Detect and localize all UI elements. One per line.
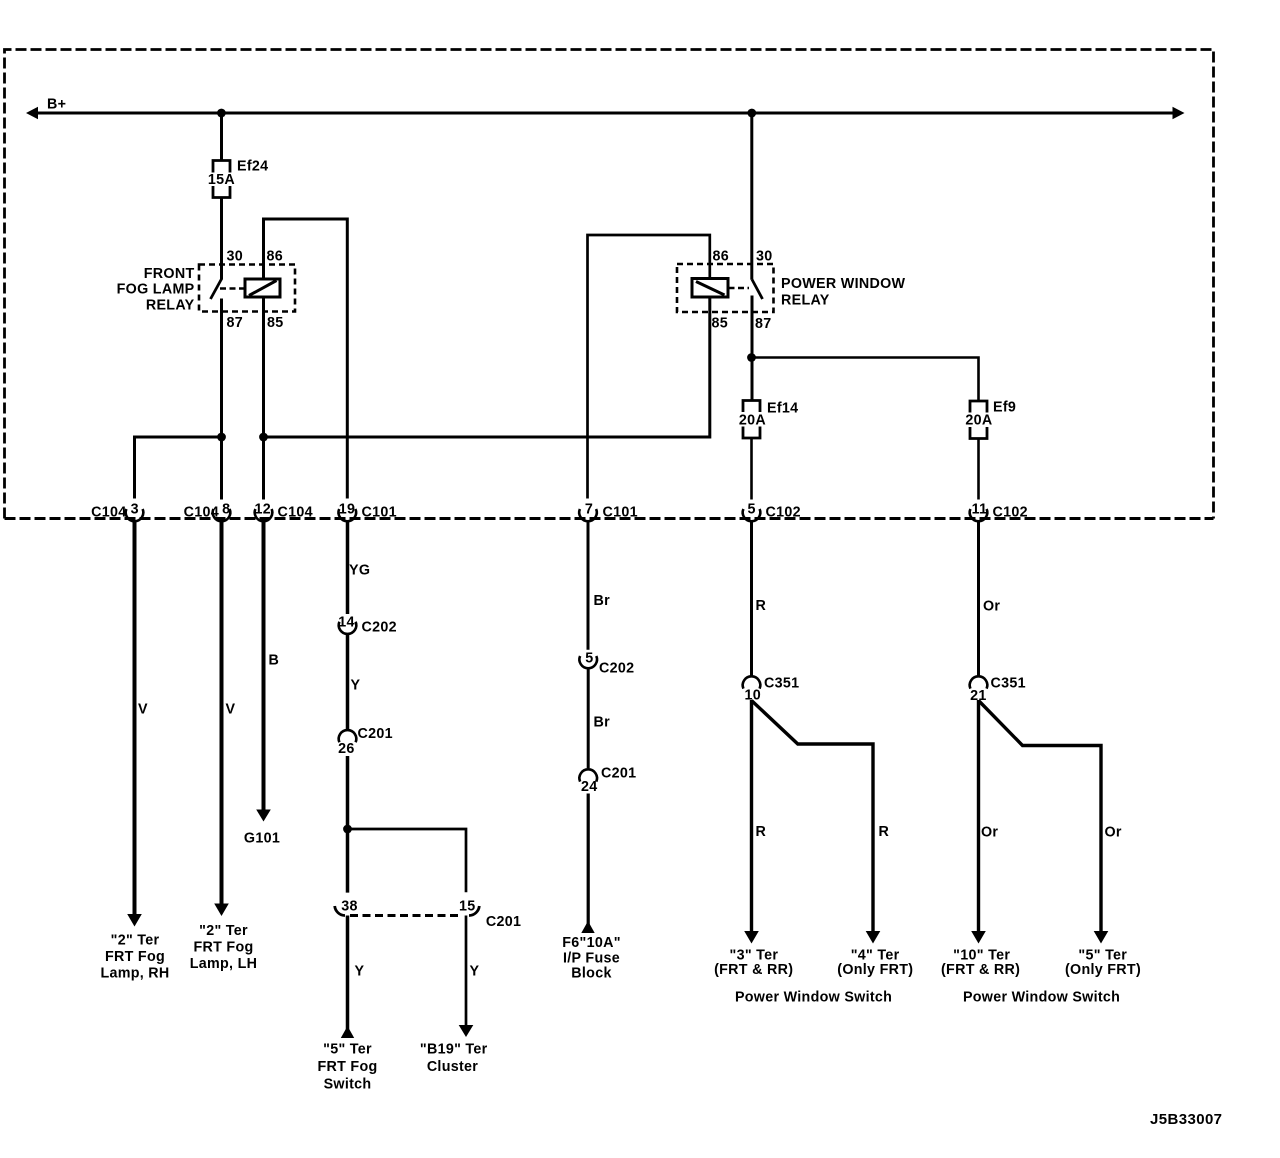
arrow to FRT fog lamp LH [214, 904, 229, 917]
wire relay FRONT FOG LAMP pin 86 up and over to connector C101-19 [264, 219, 348, 499]
arrow down PWS ter 4 [866, 931, 881, 944]
svg-text:(FRT & RR): (FRT & RR) [941, 962, 1020, 978]
connector C104-8 arc [213, 509, 231, 521]
wire from C201-24 to I/P fuse block [587, 794, 590, 934]
svg-text:C201: C201 [486, 914, 521, 930]
svg-text:C101: C101 [603, 505, 638, 521]
junction dot fog switch branch [343, 825, 352, 834]
relay POWER WINDOW coil diagonal [696, 282, 725, 296]
svg-text:5: 5 [747, 502, 755, 518]
wire Y to cluster B19 [465, 916, 468, 1026]
wire relay POWER WINDOW pin 86 up and over to connector C101-7 [588, 235, 710, 499]
arrow down PWS ter 5 [1094, 931, 1109, 944]
svg-text:(Only FRT): (Only FRT) [1065, 962, 1141, 978]
junction dot net A [217, 433, 226, 442]
svg-text:C202: C202 [362, 620, 397, 636]
svg-text:Lamp, RH: Lamp, RH [100, 966, 169, 982]
svg-text:Y: Y [355, 964, 365, 980]
svg-text:85: 85 [267, 315, 284, 331]
svg-text:11: 11 [972, 502, 988, 518]
svg-text:YG: YG [349, 563, 370, 579]
connector C351-10 arc [743, 676, 761, 688]
arrow to FRT fog lamp RH [127, 914, 142, 927]
svg-text:85: 85 [712, 316, 729, 332]
svg-text:20A: 20A [965, 413, 992, 429]
wire YG from C101-19 to C202-14 [346, 521, 350, 615]
relay FRONT FOG LAMP coil dashed link [220, 287, 245, 290]
fuse Ef14 [743, 401, 760, 439]
svg-text:8: 8 [222, 502, 230, 518]
svg-text:Ef9: Ef9 [993, 400, 1016, 416]
relay FRONT FOG LAMP dashed outline [199, 265, 295, 312]
junction dot net B [259, 433, 268, 442]
svg-text:RELAY: RELAY [146, 298, 195, 314]
wire Br from C101-7 to C202-5 [587, 521, 590, 650]
svg-text:Power Window Switch: Power Window Switch [735, 990, 892, 1006]
junction dot B+/Ef24 [217, 109, 226, 118]
arrow ground G101 [256, 810, 271, 822]
svg-text:7: 7 [585, 502, 593, 518]
svg-text:R: R [756, 598, 767, 614]
svg-text:Ef14: Ef14 [767, 401, 798, 417]
wire Or branch to power window switch ter 5 [979, 701, 1102, 932]
svg-text:F6"10A": F6"10A" [562, 935, 621, 951]
svg-text:R: R [756, 824, 767, 840]
svg-text:Lamp, LH: Lamp, LH [190, 956, 258, 972]
svg-text:C351: C351 [991, 676, 1026, 692]
wire V to FRT fog lamp RH [133, 521, 137, 915]
svg-text:(Only FRT): (Only FRT) [837, 962, 913, 978]
svg-text:"5" Ter: "5" Ter [323, 1042, 372, 1058]
wire from C201-26 to junction [346, 756, 350, 893]
svg-text:(FRT & RR): (FRT & RR) [714, 962, 793, 978]
svg-text:Cluster: Cluster [427, 1059, 478, 1075]
wire net B: relay coil ground bus [264, 297, 710, 437]
connector C351-21 arc [970, 676, 988, 688]
relay FRONT FOG LAMP switch blade [211, 279, 222, 299]
wire R from C102-5 to C351-10 [750, 521, 753, 677]
wire relay FRONT FOG LAMP pin 87 down to connector C104-8 [220, 299, 223, 500]
relay FRONT FOG LAMP coil diagonal [249, 281, 277, 296]
svg-text:20A: 20A [739, 413, 766, 429]
wire relay FRONT FOG LAMP pin 85 down to connector C104-12 [262, 297, 265, 500]
relay POWER WINDOW switch blade [752, 280, 763, 300]
svg-text:C201: C201 [358, 726, 393, 742]
svg-text:24: 24 [581, 779, 598, 795]
svg-text:POWER WINDOW: POWER WINDOW [781, 276, 906, 292]
svg-text:Power Window Switch: Power Window Switch [963, 990, 1120, 1006]
svg-text:RELAY: RELAY [781, 293, 830, 309]
svg-text:Br: Br [594, 593, 611, 609]
wire B+ to relay POWER WINDOW pin 30 [750, 113, 753, 280]
svg-text:Switch: Switch [324, 1077, 372, 1093]
svg-text:"2" Ter: "2" Ter [111, 933, 160, 949]
svg-text:15A: 15A [208, 172, 235, 188]
svg-text:FRONT: FRONT [144, 266, 195, 282]
relay POWER WINDOW dashed outline [677, 264, 774, 312]
relay POWER WINDOW coil box [692, 279, 728, 298]
svg-text:26: 26 [338, 741, 355, 757]
node B+ junction to Ef24 [220, 113, 223, 162]
wire B to ground G101 [262, 521, 266, 811]
arrow up from I/P fuse block [581, 921, 594, 933]
connector C101-19 arc [339, 509, 357, 521]
svg-text:C202: C202 [599, 661, 634, 677]
svg-text:FRT Fog: FRT Fog [317, 1059, 377, 1075]
svg-text:J5B33007: J5B33007 [1150, 1111, 1222, 1128]
svg-text:"B19" Ter: "B19" Ter [420, 1042, 488, 1058]
svg-text:Or: Or [983, 599, 1000, 615]
svg-text:C101: C101 [362, 505, 397, 521]
arrow down PWS ter 10 [971, 931, 986, 944]
svg-text:B+: B+ [47, 97, 66, 113]
B+ left arrow [26, 107, 38, 120]
wire Y to FRT fog switch [346, 916, 350, 1038]
wire R to power window switch ter 3 [750, 700, 753, 932]
connector C201-38/15 hooks and dashed line [335, 906, 480, 916]
wire fuse Ef9 to connector C102-11 [977, 439, 980, 500]
arrow down to cluster B19 [459, 1025, 474, 1037]
svg-text:V: V [138, 702, 148, 718]
svg-text:C104: C104 [184, 505, 219, 521]
connector C102-5 arc [743, 509, 761, 521]
svg-text:C102: C102 [993, 505, 1028, 521]
connector C201-24 arc [579, 769, 597, 781]
svg-text:FRT Fog: FRT Fog [105, 949, 165, 965]
connector C201-26 arc [339, 730, 357, 742]
wire V to FRT fog lamp LH [220, 521, 224, 905]
svg-text:12: 12 [254, 502, 271, 518]
relay FRONT FOG LAMP coil box [245, 279, 280, 297]
wire branch to cluster [348, 829, 467, 892]
svg-text:Y: Y [470, 964, 480, 980]
arrow down PWS ter 3 [744, 931, 759, 944]
connector C104-12 arc [255, 509, 273, 521]
svg-text:15: 15 [459, 899, 476, 915]
wire fuse Ef14 to connector C102-5 [750, 438, 753, 500]
wire Y from C202-14 to C201-26 [346, 634, 350, 731]
fuse Ef24 [213, 161, 230, 198]
svg-text:21: 21 [970, 688, 987, 704]
svg-text:5: 5 [585, 651, 593, 667]
svg-text:C104: C104 [91, 505, 126, 521]
wire branch to fuse Ef9 [752, 358, 979, 402]
svg-text:Or: Or [1105, 825, 1122, 841]
svg-text:B: B [269, 653, 280, 669]
svg-text:19: 19 [339, 502, 356, 518]
svg-text:C201: C201 [601, 766, 636, 782]
svg-text:30: 30 [756, 249, 773, 265]
svg-text:R: R [879, 824, 890, 840]
svg-text:I/P Fuse: I/P Fuse [563, 951, 620, 967]
B+ right arrow [1173, 107, 1185, 120]
svg-text:"2" Ter: "2" Ter [199, 923, 248, 939]
wire Or to power window switch ter 10 [977, 700, 980, 932]
connector C202-14 arc [339, 622, 357, 634]
fuse Ef9 [970, 401, 987, 439]
svg-text:87: 87 [755, 316, 772, 332]
svg-text:C104: C104 [278, 505, 313, 521]
wire Br from C202-5 to C201-24 [587, 669, 590, 769]
B+ bus wire [37, 112, 1174, 115]
svg-text:86: 86 [713, 249, 730, 265]
wire Or from C102-11 to C351-21 [977, 521, 980, 677]
wire R branch to power window switch ter 4 [752, 701, 874, 932]
relay POWER WINDOW coil dashed link [729, 287, 750, 290]
connector C104-3 arc [126, 509, 144, 521]
svg-text:14: 14 [338, 615, 355, 631]
outer dashed box [5, 50, 1214, 519]
connector C202-5 arc [579, 656, 597, 668]
arrow up to FRT fog switch [341, 1026, 354, 1038]
connector C102-11 arc [970, 509, 988, 521]
junction dot Ef14/Ef9 branch [747, 353, 756, 362]
svg-text:G101: G101 [244, 831, 280, 847]
svg-text:86: 86 [267, 249, 284, 265]
svg-text:87: 87 [227, 315, 244, 331]
junction dot B+/relay POWER WINDOW [747, 109, 756, 118]
svg-text:30: 30 [227, 249, 244, 265]
svg-text:38: 38 [341, 899, 358, 915]
wire relay POWER WINDOW pin 87 down to fuse Ef14 [751, 296, 754, 401]
svg-text:FOG LAMP: FOG LAMP [117, 281, 195, 297]
svg-text:Y: Y [351, 678, 361, 694]
svg-text:10: 10 [745, 688, 762, 704]
wire fuse Ef24 to relay pin 30 [220, 198, 223, 280]
connector C101-7 arc [579, 509, 597, 521]
svg-text:Br: Br [594, 715, 611, 731]
svg-text:V: V [226, 702, 236, 718]
svg-text:3: 3 [131, 502, 139, 518]
svg-text:Or: Or [981, 825, 998, 841]
wire net A: fog lamp feed horizontal [135, 437, 222, 499]
svg-text:C102: C102 [766, 505, 801, 521]
connector row dashed line [5, 517, 1214, 520]
svg-text:C351: C351 [764, 676, 799, 692]
svg-text:Ef24: Ef24 [237, 159, 268, 175]
svg-text:FRT Fog: FRT Fog [193, 940, 253, 956]
svg-text:Block: Block [571, 966, 611, 982]
